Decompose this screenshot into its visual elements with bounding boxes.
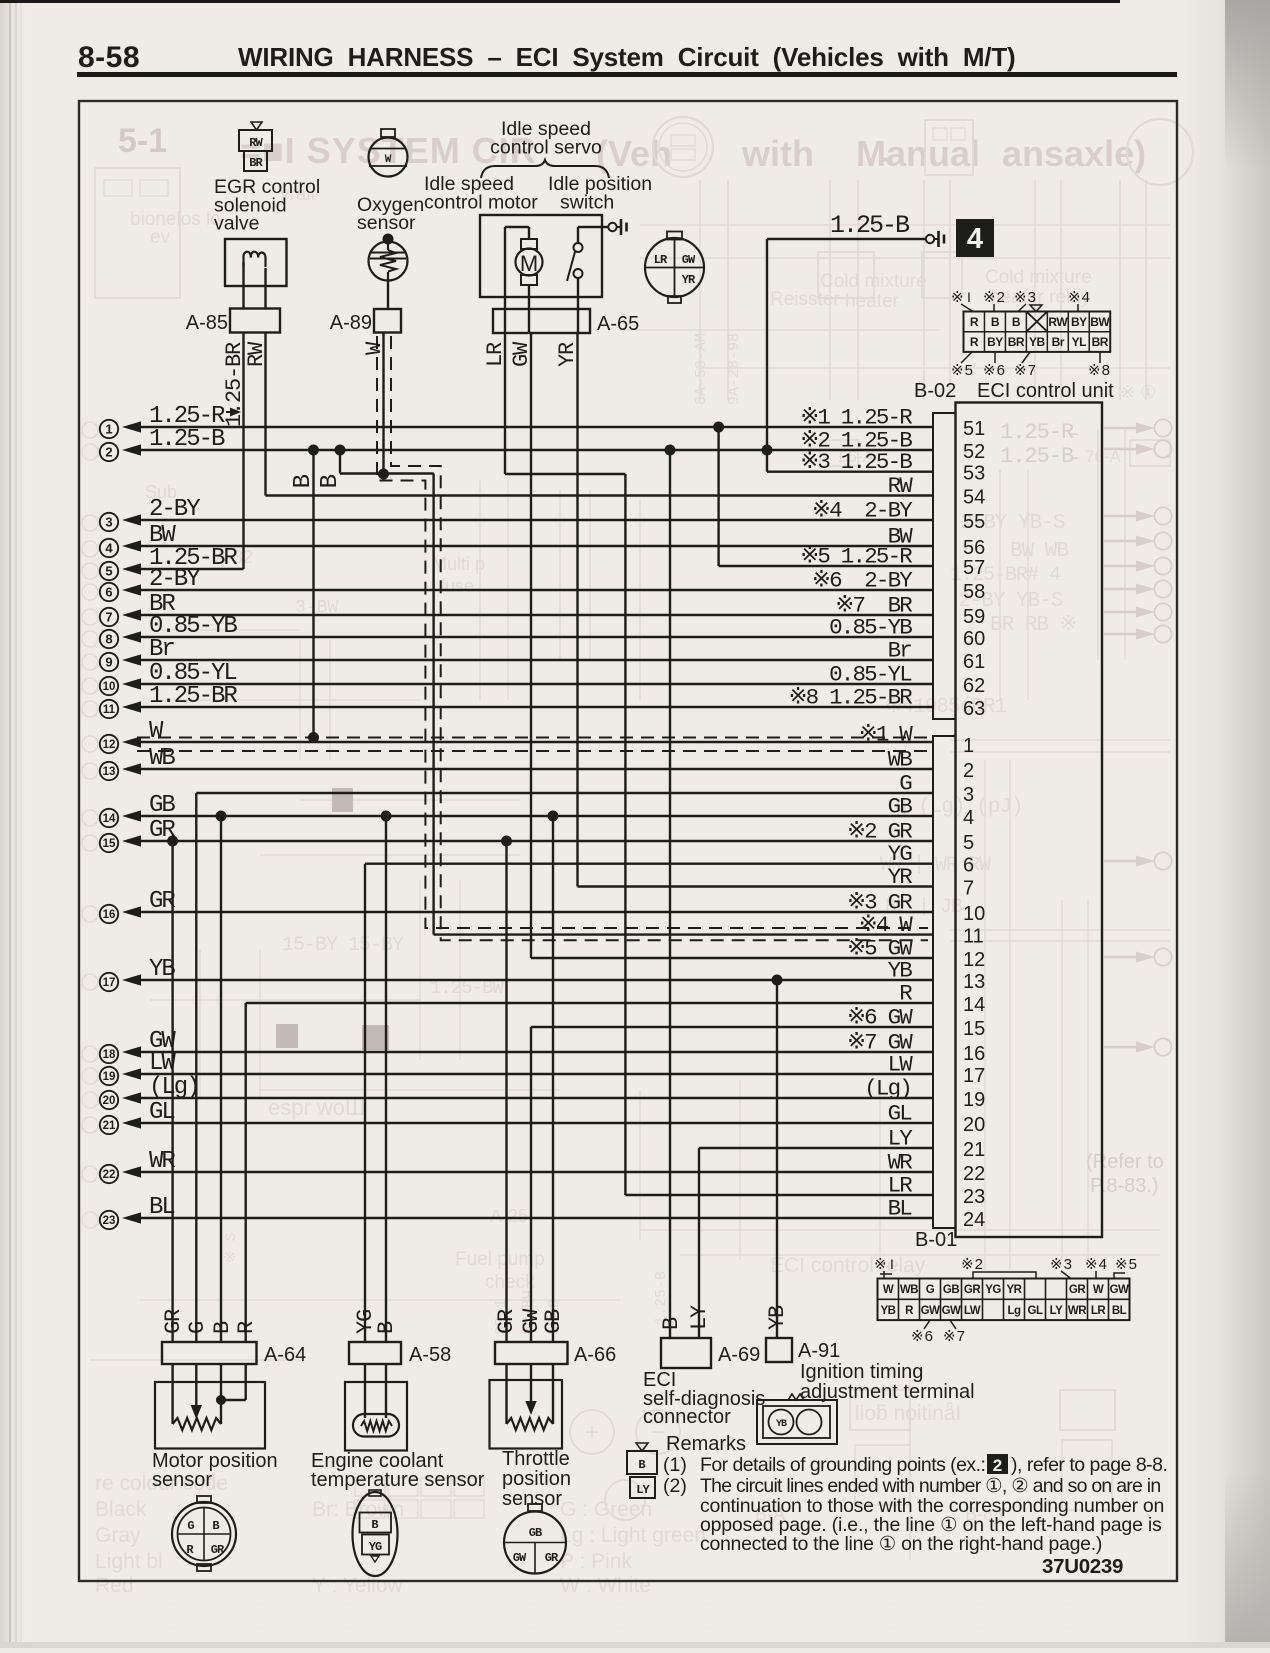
node 5 : left wire 1.25-BR line 5 [100, 545, 244, 580]
svg-text:R: R [234, 1321, 259, 1334]
svg-text:※4 W: ※4 W [859, 912, 913, 938]
svg-text:GR: GR [211, 1543, 225, 1557]
svg-text:LW: LW [888, 1052, 914, 1078]
svg-text:GL: GL [888, 1101, 913, 1127]
svg-text:switch: switch [560, 192, 614, 214]
svg-text:37U0239: 37U0239 [1042, 1555, 1123, 1578]
svg-text:3: 3 [105, 515, 112, 530]
svg-text:52: 52 [963, 441, 985, 463]
node 22 : left wire WR line 22 [100, 1148, 933, 1183]
svg-text:A-64: A-64 [264, 1344, 306, 1366]
svg-text:17: 17 [963, 1065, 985, 1087]
svg-text:BL: BL [1112, 1305, 1127, 1317]
svg-text:※3: ※3 [1014, 289, 1037, 306]
svg-text:YR: YR [1007, 1284, 1023, 1296]
node 19 : left wire LW line 19 [100, 1050, 933, 1085]
svg-text:13: 13 [103, 766, 116, 778]
wire YR from A-65 to pin7 [576, 333, 578, 887]
motor position sensor symbol [155, 1382, 265, 1449]
svg-text:24: 24 [963, 1209, 985, 1231]
svg-text:GR: GR [494, 1309, 519, 1334]
pinout circle LR GW YR [667, 232, 682, 240]
svg-text:G : Green: G : Green [560, 1498, 652, 1521]
svg-text:GW: GW [513, 1551, 527, 1565]
svg-text:62: 62 [963, 675, 985, 697]
wire LR down to pin 23 [624, 474, 626, 1195]
svg-text:GB: GB [541, 1309, 566, 1334]
wire GR to A-66 [505, 841, 507, 1342]
svg-text:(Lg): (Lg) [864, 1076, 911, 1102]
svg-text:※ ①: ※ ① [1120, 382, 1156, 402]
connector A-65 [493, 309, 590, 333]
svg-text:Br: Br [888, 638, 912, 664]
svg-text:10: 10 [103, 681, 116, 693]
svg-text:R: R [970, 315, 979, 329]
svg-text:61: 61 [963, 651, 985, 673]
svg-text:GR: GR [161, 1309, 186, 1334]
svg-text:3: 3 [963, 784, 974, 806]
node 8 : left wire 0.85-YB line 8 [100, 613, 933, 648]
svg-text:A-91: A-91 [798, 1340, 840, 1362]
svg-text:56: 56 [963, 537, 985, 559]
svg-text:8-58: 8-58 [78, 41, 140, 74]
svg-text:Remarks: Remarks [666, 1433, 746, 1455]
svg-text:W: W [362, 341, 387, 355]
svg-text:23: 23 [103, 1215, 116, 1227]
svg-text:BR: BR [1092, 335, 1109, 349]
wire YG to A-58 [364, 864, 366, 1342]
svg-text:8: 8 [105, 632, 112, 647]
svg-text:RW: RW [1048, 315, 1068, 329]
wire 1.25-BR EGR down to line 5 [242, 332, 244, 569]
svg-text:18: 18 [103, 1049, 116, 1061]
svg-text:LR: LR [654, 253, 668, 267]
svg-text:RW: RW [244, 341, 269, 367]
wire GW to pin 12 [531, 957, 933, 959]
node 3 : left wire 2-BY line 3 [100, 496, 933, 531]
svg-text:16: 16 [963, 1043, 985, 1065]
svg-text:Y : Yellоw: Y : Yellоw [312, 1574, 404, 1597]
svg-text:B: B [210, 1321, 235, 1334]
wire 1.25-B to pin 53 [767, 471, 933, 473]
svg-text:GB: GB [149, 792, 175, 819]
svg-text:heater: heater [845, 291, 900, 312]
wire W shield to pin 11 [434, 933, 933, 935]
svg-text:21: 21 [103, 1120, 116, 1132]
svg-text:YR: YR [555, 342, 580, 367]
svg-text:16: 16 [103, 909, 116, 921]
brace [481, 160, 609, 178]
pin strip 1-24 [933, 736, 956, 1228]
svg-text:21: 21 [963, 1139, 985, 1161]
svg-text:R: R [899, 981, 912, 1007]
svg-text:ECI control unit: ECI control unit [977, 380, 1114, 402]
svg-text:YB: YB [776, 1419, 787, 1430]
node 13 : left wire WB line 13 [100, 745, 933, 780]
svg-text:LW: LW [964, 1305, 981, 1317]
svg-text:※6 2-BY: ※6 2-BY [812, 568, 913, 594]
svg-text:R: R [905, 1305, 914, 1317]
wire GW from A-66 to pin15 [530, 1027, 532, 1342]
node 4 : left wire BW line 4 [100, 522, 933, 557]
node 11 : left wire 1.25-BR line 11 [100, 683, 933, 718]
wire GB to A-66 [552, 816, 554, 1342]
wire YG to pin 6 [365, 863, 933, 865]
wire RW down to pin54 line [264, 332, 266, 496]
wire B down to A-69 [669, 450, 671, 1338]
svg-text:M: M [520, 251, 538, 276]
coolant temp sensor symbol [345, 1382, 407, 1451]
wire G to A-64 [195, 793, 197, 1342]
svg-text:BR RB ※: BR RB ※ [990, 614, 1076, 637]
svg-text:19: 19 [963, 1089, 985, 1111]
svg-text:YB: YB [881, 1305, 896, 1317]
svg-text:7: 7 [963, 878, 974, 900]
svg-text:GR: GR [1069, 1284, 1086, 1296]
svg-text:connector: connector [643, 1406, 731, 1428]
svg-text:B: B [991, 315, 1000, 329]
svg-text:13: 13 [963, 971, 985, 993]
svg-text:A-66: A-66 [574, 1344, 616, 1366]
svg-text:RW: RW [249, 136, 263, 150]
svg-text:Br: Br [149, 636, 174, 663]
svg-text:I: I [890, 1256, 894, 1272]
svg-text:B: B [290, 474, 317, 488]
connector A-89 [374, 309, 401, 333]
grounding point 4 black box [956, 219, 994, 257]
svg-text:YR: YR [888, 864, 913, 890]
svg-text:14: 14 [963, 994, 985, 1016]
svg-text:2: 2 [993, 1456, 1002, 1475]
svg-text:A-25: A-25 [490, 1206, 528, 1226]
wire B2 from line2 [339, 450, 341, 474]
connector A-66 [495, 1342, 568, 1364]
svg-text:W: W [1093, 1284, 1104, 1296]
svg-text:GL: GL [149, 1099, 174, 1126]
svg-text:9A-28-98: 9A-28-98 [726, 333, 743, 405]
svg-text:5: 5 [963, 832, 974, 854]
svg-text:※8: ※8 [1088, 362, 1111, 379]
svg-text:5: 5 [105, 564, 112, 579]
node 15 : left wire GR line 15 [100, 817, 933, 852]
svg-text:LY: LY [1050, 1305, 1063, 1317]
svg-text:51: 51 [963, 418, 985, 440]
svg-text:temperature sensor: temperature sensor [311, 1469, 485, 1491]
svg-text:58: 58 [963, 581, 985, 603]
svg-text:), refer to page 8-8.: ), refer to page 8-8. [1011, 1454, 1167, 1476]
svg-text:22: 22 [103, 1169, 116, 1181]
node 10 : left wire 0.85-YL line 10 [100, 660, 933, 695]
A-58 oval pinout [369, 1490, 381, 1496]
svg-text:valve: valve [214, 213, 260, 235]
svg-text:B: B [1012, 315, 1021, 329]
svg-text:GW: GW [1110, 1284, 1129, 1296]
wire LY down to A-69 [698, 1148, 700, 1338]
svg-text:23: 23 [963, 1186, 985, 1208]
svg-text:WIRING HARNESS – ECI System Ci: WIRING HARNESS – ECI System Circuit (Veh… [238, 42, 1015, 72]
svg-text:※8 1.25-BR: ※8 1.25-BR [789, 685, 913, 711]
svg-text:LY: LY [687, 1305, 712, 1330]
svg-text:1.25-B: 1.25-B [830, 211, 910, 240]
svg-text:A-85: A-85 [186, 312, 228, 334]
svg-text:22: 22 [963, 1163, 985, 1185]
oxygen sensor symbol [383, 234, 394, 245]
node 7 : left wire BR line 7 [100, 591, 933, 626]
motor M [505, 226, 529, 228]
junction dots [713, 422, 724, 433]
node 21 : left wire GL line 21 [100, 1099, 933, 1134]
wire 1.25-B up to ground 4 [766, 239, 768, 472]
svg-text:WB: WB [149, 745, 175, 772]
svg-text:14: 14 [103, 813, 116, 825]
svg-text:63: 63 [963, 698, 985, 720]
svg-text:YG: YG [985, 1284, 1001, 1296]
node 17 : left wire YB line 17 [100, 956, 933, 991]
shield dashes around O2 wire [391, 336, 928, 940]
svg-text:11: 11 [963, 926, 984, 948]
svg-text:4: 4 [967, 223, 983, 255]
svg-text:bionelos lo: bionelos lo [130, 209, 221, 230]
svg-text:check: check [485, 1272, 535, 1293]
svg-text:YB: YB [765, 1305, 790, 1330]
wire 1.25-R to pin 57 [719, 565, 933, 567]
EGR solenoid valve symbol [225, 239, 287, 286]
svg-text:LR: LR [483, 342, 508, 367]
svg-text:6: 6 [963, 855, 974, 877]
svg-text:B: B [371, 1518, 378, 1532]
svg-text:2: 2 [105, 445, 112, 460]
svg-text:60: 60 [963, 628, 985, 650]
svg-text:B: B [317, 474, 344, 488]
svg-text:P.8-83.): P.8-83.) [1090, 1175, 1159, 1197]
svg-text:Throttle: Throttle [502, 1448, 570, 1470]
connector A-91 [766, 1338, 792, 1362]
svg-text:(2): (2) [663, 1475, 687, 1497]
svg-text:1: 1 [105, 422, 112, 437]
node 20 : left wire (Lg) line 20 [100, 1074, 933, 1109]
node 12 : left wire W line 12 [100, 718, 933, 753]
svg-text:G: G [187, 1519, 194, 1533]
svg-text:G: G [926, 1284, 935, 1296]
svg-text:sensor: sensor [502, 1488, 562, 1510]
svg-text:RW: RW [888, 473, 914, 499]
svg-text:sensor: sensor [357, 212, 416, 234]
svg-text:2-BY: 2-BY [149, 566, 200, 593]
svg-text:G: G [185, 1322, 210, 1334]
svg-text:(Lg): (Lg) [149, 1074, 199, 1101]
svg-text:P : Pink: P : Pink [560, 1550, 632, 1573]
wire LR from A-65 [504, 333, 506, 474]
wire YB down to A-91 [776, 980, 778, 1338]
svg-text:fuse: fuse [440, 576, 474, 596]
svg-text:※7: ※7 [1014, 362, 1037, 379]
svg-text:LR: LR [1091, 1305, 1107, 1317]
svg-text:BY: BY [987, 335, 1003, 349]
svg-text:11: 11 [103, 704, 116, 716]
connector A-69 [661, 1338, 711, 1368]
svg-text:control motor: control motor [424, 192, 538, 214]
servo box [480, 215, 602, 297]
wire B1 from line2 to shield [312, 450, 314, 738]
node 1 : left wire 1.25-R line 1 [100, 403, 933, 438]
svg-text:GW: GW [921, 1305, 940, 1317]
svg-text:GB: GB [529, 1526, 542, 1540]
svg-text:BY: BY [1071, 315, 1087, 329]
node 18 : left wire GW line 18 [100, 1028, 933, 1063]
svg-text:1.25-R̵: 1.25-R̵ [1000, 420, 1078, 445]
svg-text:GL: GL [1028, 1305, 1043, 1317]
svg-text:※ S: ※ S [223, 1232, 240, 1263]
svg-text:Br: Br [1052, 335, 1065, 349]
oxygen sensor top pinout circle [381, 129, 395, 137]
svg-text:BR: BR [249, 156, 263, 170]
svg-text:GB: GB [888, 794, 913, 820]
svg-text:B: B [638, 1458, 645, 1472]
svg-text:15: 15 [963, 1018, 985, 1040]
svg-text:B: B [212, 1519, 219, 1533]
svg-text:B-01: B-01 [915, 1229, 957, 1251]
node 14 : left wire GB line 14 [100, 792, 933, 827]
svg-text:ansaxle): ansaxle) [1002, 133, 1146, 174]
wire LR to pin 23 [625, 1194, 933, 1196]
ground symbol [926, 235, 934, 243]
svg-text:※4: ※4 [1085, 1256, 1108, 1273]
svg-text:I: I [967, 289, 971, 305]
svg-text:4: 4 [963, 807, 974, 829]
svg-text:B: B [374, 1321, 399, 1334]
svg-text:4: 4 [105, 541, 113, 556]
ECI control unit box [956, 403, 1103, 1238]
svg-text:※3 1.25-B: ※3 1.25-B [800, 449, 912, 475]
svg-text:1: 1 [963, 735, 974, 757]
A-66 round pinout [528, 1504, 542, 1511]
svg-text:1.25-B: 1.25-B [149, 426, 225, 453]
svg-text:1.25-BR: 1.25-BR [149, 683, 237, 710]
wire R to A-64 [244, 1003, 246, 1342]
svg-text:※2: ※2 [961, 1256, 984, 1273]
svg-text:lioƃ noitinǟI: lioƃ noitinǟI [855, 1402, 961, 1425]
svg-text:Lg : Light green: Lg : Light green [560, 1524, 706, 1547]
svg-text:Gray: Gray [95, 1524, 141, 1547]
wire YR to pin 7 [578, 885, 934, 887]
svg-text:BL: BL [149, 1194, 174, 1221]
wire RW to pin 54 [266, 494, 934, 496]
svg-text:(Refer to: (Refer to [1086, 1151, 1164, 1173]
svg-text:Black: Black [95, 1498, 147, 1521]
svg-text:A-58: A-58 [409, 1344, 451, 1366]
svg-text:8A-58-AM: 8A-58-AM [693, 333, 710, 405]
svg-text:BL: BL [888, 1196, 913, 1222]
svg-text:BR: BR [1008, 335, 1025, 349]
svg-text:R: R [970, 335, 979, 349]
svg-text:ev: ev [150, 227, 171, 248]
diagram border frame [79, 101, 1177, 1581]
connector A-64 [162, 1342, 257, 1364]
svg-text:※4: ※4 [1068, 289, 1091, 306]
svg-text:19: 19 [103, 1071, 116, 1083]
wire B to A-64 [220, 816, 222, 1342]
svg-text:A-65: A-65 [597, 313, 639, 335]
svg-text:9: 9 [105, 655, 112, 670]
node 9 : left wire Br line 9 [100, 636, 933, 671]
ground at servo switch [602, 226, 608, 228]
svg-text:Red: Red [95, 1574, 134, 1597]
svg-text:A-69: A-69 [718, 1344, 760, 1366]
svg-text:M̵anual: M̵anual [856, 133, 980, 174]
shield dashes around line 12 [137, 737, 928, 739]
node 2 : left wire 1.25-B line 2 [100, 426, 933, 461]
node 16 : left wire GR line 16 [100, 888, 933, 923]
svg-text:YB: YB [1029, 335, 1046, 349]
svg-text:12: 12 [963, 949, 985, 971]
svg-text:5-1: 5-1 [118, 122, 167, 160]
svg-text:LY: LY [888, 1126, 914, 1152]
svg-text:※1 W: ※1 W [859, 722, 913, 748]
svg-text:control servo: control servo [490, 137, 602, 159]
wire 1.25-R branch to pin 57 [717, 427, 719, 566]
svg-text:※6: ※6 [983, 362, 1006, 379]
svg-text:15: 15 [103, 838, 116, 850]
ignition timing terminal symbol [788, 1394, 804, 1400]
svg-text:YL: YL [1072, 335, 1087, 349]
svg-text:WR: WR [1068, 1305, 1087, 1317]
svg-text:LY: LY [636, 1483, 650, 1497]
wire LY to pin 21 [699, 1147, 933, 1149]
connector A-85 [230, 309, 280, 333]
svg-text:connected to the line ① on the: connected to the line ① on the right-han… [700, 1533, 1102, 1555]
svg-text:20: 20 [963, 1114, 985, 1136]
node 23 : left wire BL line 23 [100, 1194, 933, 1229]
svg-text:GB: GB [943, 1284, 959, 1296]
svg-text:GW: GW [509, 341, 534, 367]
svg-text:※4 2-BY: ※4 2-BY [812, 498, 913, 524]
connector pinout above EGR (RW/BR) [251, 122, 262, 130]
svg-text:B: B [659, 1317, 684, 1330]
svg-text:GR: GR [964, 1284, 981, 1296]
svg-text:6: 6 [105, 585, 112, 600]
svg-text:※: ※ [951, 289, 964, 306]
svg-text:Cold mixture: Cold mixture [985, 267, 1092, 288]
svg-text:sensor: sensor [152, 1469, 212, 1491]
node 6 : left wire 2-BY line 6 [100, 566, 933, 601]
pin strip 51-63 [933, 413, 956, 719]
wire W from A-89 [382, 333, 384, 475]
svg-text:YR: YR [682, 273, 696, 287]
svg-text:GW: GW [942, 1305, 961, 1317]
svg-text:1.25-B: 1.25-B [653, 1271, 670, 1325]
svg-text:position: position [502, 1468, 571, 1490]
svg-text:10: 10 [963, 903, 985, 925]
label arrow to wire [226, 411, 236, 413]
ghost bleed-through of reverse page [118, 122, 1146, 174]
connector A-58 [349, 1342, 401, 1364]
svg-text:7: 7 [105, 610, 112, 625]
svg-text:For details of grounding point: For details of grounding points (ex.: [700, 1454, 985, 1476]
svg-text:B-02: B-02 [914, 380, 956, 402]
svg-text:WB: WB [900, 1284, 918, 1296]
svg-text:YG: YG [369, 1540, 382, 1554]
wire B to A-58 [385, 816, 387, 1342]
svg-text:GW: GW [682, 253, 696, 267]
svg-text:BW: BW [1090, 315, 1110, 329]
svg-text:2-BY: 2-BY [149, 496, 200, 523]
svg-text:※2: ※2 [983, 289, 1006, 306]
wire R to pin 14 [246, 1002, 933, 1004]
svg-text:ECI cоntrоl relay: ECI cоntrоl relay [770, 1254, 926, 1277]
svg-text:2: 2 [963, 760, 974, 782]
throttle position sensor symbol [490, 1380, 563, 1449]
svg-text:※5: ※5 [951, 362, 974, 379]
